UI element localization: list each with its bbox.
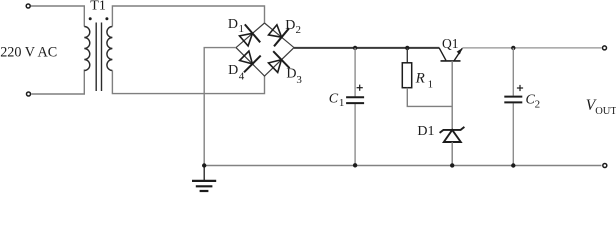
diode D4 [240,51,261,72]
svg-text:T1: T1 [90,0,106,14]
svg-text:Q1: Q1 [442,36,459,51]
svg-text:D: D [286,67,296,82]
svg-text:3: 3 [296,74,302,86]
diode D3 [269,51,290,72]
svg-text:220 V AC: 220 V AC [0,45,57,61]
capacitor C1 plates [346,97,364,103]
plus sign C1 [357,85,363,91]
wire primary bottom [31,70,84,95]
capacitor C2 lead bottom [512,103,514,165]
zener diode D1 [440,127,465,142]
transformer T1 core [96,23,101,92]
transistor Q1 emitter with arrow [454,48,462,61]
diode D1 [240,24,261,46]
wire secondary bottom to bridge bottom vertex [112,71,264,94]
capacitor C2 lead top [512,48,514,96]
transistor Q1 collector slant [439,48,446,61]
junction R1 top [405,46,409,50]
svg-text:C: C [329,92,339,107]
wire bridge left vertex to ground vertical [204,48,236,166]
resistor R1 lead bottom to base node [407,88,452,107]
ground symbol [192,166,216,192]
svg-text:D1: D1 [417,124,434,139]
wire positive rail Q1 to output [462,47,601,49]
transistor Q1 base bar [441,60,461,62]
capacitor C1 lead bottom [354,104,356,166]
svg-text:OUT: OUT [595,106,616,117]
capacitor C2 plates [504,97,522,103]
svg-text:4: 4 [239,70,245,82]
svg-text:D: D [228,17,238,32]
diode D2 [269,25,290,47]
resistor R1 body [402,63,411,88]
transformer T1 secondary winding [107,27,112,71]
wire positive rail bridge to Q1 (bold) [294,47,439,49]
resistor R1 lead top [406,48,408,63]
svg-text:D: D [228,63,238,78]
svg-text:D: D [285,18,295,33]
junction C2 top [511,46,515,50]
svg-text:2: 2 [296,24,302,36]
plus sign C2 [517,85,523,91]
terminal output bottom [603,164,607,168]
junction zener bottom [450,163,454,167]
ground rail [204,165,601,167]
svg-text:2: 2 [535,99,541,111]
svg-text:1: 1 [428,79,434,91]
terminal output top [603,46,607,50]
svg-text:R: R [415,71,425,87]
polarity dot secondary [105,17,108,20]
transistor Q1 base lead [451,61,453,130]
terminal input bottom [27,92,31,96]
polarity dot primary [89,17,92,20]
transformer T1 primary winding [84,27,90,71]
bridge diamond wires [236,23,294,76]
junction C1 bottom [353,163,357,167]
wire primary top [31,6,84,27]
zener lead bottom [451,142,453,165]
terminal input top [26,4,30,8]
junction C2 bottom [511,163,515,167]
wire secondary top to bridge top vertex [112,6,264,27]
svg-text:1: 1 [339,97,345,109]
capacitor C1 lead top [354,48,356,97]
junction C1 top [353,46,357,50]
junction ground rail left [202,163,206,167]
svg-text:1: 1 [239,23,245,35]
